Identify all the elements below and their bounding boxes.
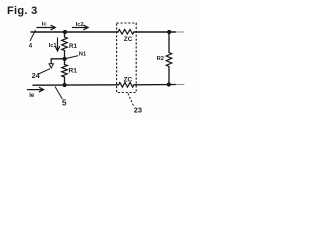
leader dashed line to label 23 — [128, 94, 134, 107]
wire top rail fading end — [176, 31, 184, 33]
hollow triangle terminal 24 — [49, 64, 54, 68]
resistor R1 upper zigzag — [62, 37, 68, 51]
wire bottom rail left segment — [33, 84, 119, 86]
svg-text:Fig. 3: Fig. 3 — [7, 5, 38, 17]
wire top rail left segment — [31, 31, 118, 33]
node dot junction top (Ic split) — [63, 30, 67, 34]
node dot N1 — [63, 57, 67, 61]
leader line for label 5 — [55, 87, 62, 100]
svg-text:5: 5 — [62, 99, 67, 108]
svg-text:ZC: ZC — [124, 36, 133, 43]
dashed box 23 around ZC elements — [117, 23, 137, 93]
wire N1 to lower R1 — [64, 59, 66, 65]
leader line for label N1 — [66, 56, 78, 59]
node dot bottom node 5 — [63, 83, 67, 87]
svg-text:N1: N1 — [79, 52, 87, 58]
svg-text:24: 24 — [32, 73, 40, 80]
node dot R2 bottom — [167, 82, 171, 86]
svg-text:Ic1: Ic1 — [49, 43, 58, 49]
leader line for label 4 — [30, 30, 36, 41]
resistor ZC bottom zigzag — [119, 83, 135, 88]
wire R2 branch lower — [168, 67, 170, 85]
wire bottom rail right segment — [134, 84, 176, 86]
current arrow Ic — [37, 25, 55, 29]
current arrow Ic2 — [73, 25, 89, 29]
node dot R2 top — [167, 30, 171, 34]
resistor R1 lower zigzag — [62, 65, 68, 78]
resistor ZC top zigzag — [118, 30, 134, 35]
resistor R2 zigzag — [166, 53, 171, 67]
svg-text:R1: R1 — [69, 68, 78, 75]
wire node N1 stub left — [51, 59, 64, 64]
wire bottom rail fading end — [176, 84, 184, 86]
wire R2 branch upper — [168, 32, 170, 53]
wire R1 to node N1 — [64, 51, 66, 60]
wire lower R1 to bottom node 5 — [64, 77, 66, 85]
leader line for label 24 with hollow arrowhead — [39, 69, 51, 74]
svg-text:Ic: Ic — [42, 21, 48, 27]
current arrow Ie — [28, 87, 44, 91]
svg-text:Ic2: Ic2 — [76, 22, 84, 28]
current arrow Ic1 (downward) — [55, 38, 59, 51]
svg-text:Ie: Ie — [29, 93, 35, 99]
svg-text:ZC: ZC — [124, 76, 133, 83]
wire top rail right segment — [134, 31, 176, 33]
svg-text:23: 23 — [134, 106, 142, 115]
wire branch top node to R1 — [64, 32, 66, 37]
svg-text:R1: R1 — [69, 43, 77, 50]
svg-text:R2: R2 — [157, 56, 164, 62]
